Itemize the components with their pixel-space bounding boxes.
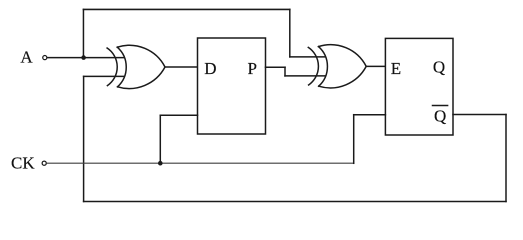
wire P output bbox=[266, 66, 286, 68]
wire xor G2 output to E bbox=[366, 65, 385, 67]
svg-text:P: P bbox=[248, 59, 257, 78]
wire CK line bbox=[47, 162, 354, 164]
wire CK up to U2 clock bbox=[353, 115, 355, 164]
svg-text:E: E bbox=[391, 59, 401, 78]
wire U1 clock stub bbox=[160, 114, 197, 116]
wire P jog down bbox=[284, 67, 286, 76]
svg-text:D: D bbox=[204, 59, 216, 78]
wire Qbar output bbox=[453, 114, 506, 116]
wire xor G1 output to D bbox=[165, 66, 198, 68]
wire top branch bbox=[83, 8, 289, 10]
wire Qbar feedback down bbox=[505, 115, 507, 202]
svg-text:A: A bbox=[20, 48, 33, 67]
wire CK junction up to U1 clock bbox=[159, 115, 161, 163]
wire xor G1 lower input bbox=[84, 75, 124, 77]
xor gate G1 bbox=[107, 45, 165, 88]
wire to xor G2 upper input bbox=[290, 56, 325, 58]
input terminal CK bbox=[42, 161, 46, 165]
svg-text:Q: Q bbox=[433, 57, 445, 76]
wire Qbar feedback bottom bbox=[84, 201, 506, 203]
flip-flop U2 box (E/Q) bbox=[385, 38, 453, 135]
input terminal A bbox=[43, 56, 47, 60]
node A junction bbox=[81, 55, 86, 60]
overbar of Qbar bbox=[433, 105, 448, 107]
flip-flop U1 box (D/P) bbox=[198, 38, 266, 134]
xor gate G2 bbox=[308, 45, 366, 88]
node CK junction bbox=[158, 161, 163, 166]
wire U2 clock stub bbox=[354, 114, 386, 116]
svg-text:Q: Q bbox=[434, 107, 446, 126]
wire Qbar feedback up to xor G1 bbox=[83, 76, 85, 201]
wire to xor G2 lower input bbox=[285, 75, 325, 77]
svg-text:CK: CK bbox=[11, 154, 35, 173]
wire A input bbox=[47, 57, 124, 59]
wire top branch down bbox=[289, 9, 291, 56]
wire A junction up bbox=[82, 9, 84, 57]
